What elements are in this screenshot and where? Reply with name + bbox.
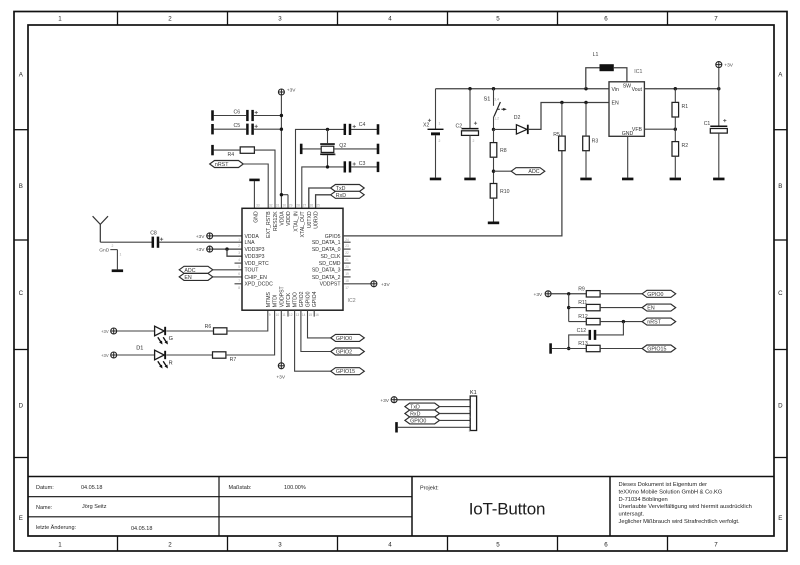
- svg-text:+3V: +3V: [196, 234, 205, 240]
- svg-text:E: E: [778, 515, 782, 522]
- resistor R11: [578, 300, 600, 311]
- svg-text:11: 11: [282, 313, 286, 317]
- svg-text:Name:: Name:: [36, 505, 53, 511]
- net flag GPIO0 (IC2): [331, 334, 365, 341]
- wire GPIO0 to K1 pin 4: [440, 419, 471, 421]
- wire R3 to ground: [585, 103, 587, 178]
- svg-text:27: 27: [303, 204, 307, 208]
- svg-text:C2: C2: [456, 124, 463, 130]
- net flag EN (pull-up): [642, 304, 676, 311]
- svg-text:Vout: Vout: [632, 87, 643, 93]
- svg-text:1: 1: [238, 238, 240, 242]
- svg-text:1: 1: [439, 122, 441, 126]
- resistor R8: [490, 143, 507, 158]
- wire R8 to ADC node: [492, 157, 511, 183]
- svg-text:5: 5: [496, 541, 500, 548]
- svg-text:XTAL_IN: XTAL_IN: [294, 211, 300, 232]
- svg-text:R6: R6: [205, 324, 212, 330]
- svg-text:GND: GND: [622, 131, 634, 137]
- svg-text:U0RXD: U0RXD: [314, 211, 320, 229]
- wire R10 to ground: [493, 198, 495, 221]
- resistor R5: [553, 132, 565, 151]
- svg-text:X2: X2: [423, 122, 429, 128]
- supply +3V (below IC2): [278, 363, 284, 369]
- svg-text:SD_DATA_1: SD_DATA_1: [312, 240, 341, 246]
- svg-text:EN: EN: [647, 306, 655, 312]
- resistor R13: [578, 341, 600, 352]
- svg-text:1: 1: [469, 401, 471, 405]
- svg-text:VDD3P3: VDD3P3: [245, 247, 265, 253]
- svg-text:14: 14: [302, 313, 306, 317]
- wire LED green to R6: [166, 330, 213, 332]
- svg-text:C: C: [778, 290, 783, 297]
- svg-text:CHIP_EN: CHIP_EN: [245, 275, 268, 281]
- svg-text:25: 25: [316, 204, 320, 208]
- svg-text:6: 6: [238, 272, 240, 276]
- svg-text:VFB: VFB: [632, 127, 643, 133]
- resistor R6: [205, 324, 227, 334]
- wire antenna to C8: [100, 242, 152, 248]
- svg-text:GPIO15: GPIO15: [647, 347, 666, 353]
- svg-text:EXT_RSTB: EXT_RSTB: [266, 211, 272, 238]
- wire C5 row: [214, 128, 283, 131]
- net flag RxD (IC2): [331, 191, 365, 198]
- svg-text:untersagt.: untersagt.: [619, 512, 645, 518]
- wire RxD to K1 pin 3: [440, 413, 471, 415]
- ground bar (Q2 left): [300, 144, 303, 154]
- svg-text:R13: R13: [578, 341, 588, 347]
- svg-text:4: 4: [388, 541, 392, 548]
- wire C12 to nRST node: [596, 322, 624, 335]
- svg-text:VDDD: VDDD: [286, 211, 292, 226]
- resistor R4: [228, 147, 255, 158]
- svg-text:VDD_RTC: VDD_RTC: [245, 261, 269, 267]
- net flag GPIO0 (pull-up): [642, 290, 676, 297]
- wire LED red to R7: [166, 354, 212, 356]
- wire C12 to ground node: [567, 335, 589, 350]
- svg-text:GPIO15: GPIO15: [336, 369, 355, 375]
- svg-text:Maßstab:: Maßstab:: [229, 485, 252, 491]
- wire R13 to GPIO15 flag: [600, 348, 642, 350]
- svg-text:C6: C6: [234, 109, 241, 115]
- wire C4 right: [351, 128, 377, 130]
- net flag ADC (divider): [511, 168, 545, 175]
- svg-text:D: D: [778, 403, 783, 410]
- svg-text:letzte Änderung:: letzte Änderung:: [36, 524, 77, 531]
- svg-text:2: 2: [112, 244, 114, 248]
- supply +3V (top, above IC2): [278, 89, 284, 95]
- ground bar (C6 left): [211, 110, 214, 120]
- svg-text:10: 10: [276, 313, 280, 317]
- svg-text:24: 24: [345, 238, 349, 242]
- svg-text:SD_DATA_3: SD_DATA_3: [312, 268, 341, 274]
- svg-text:ADC: ADC: [528, 169, 539, 175]
- svg-text:MTDO: MTDO: [293, 292, 299, 307]
- wire crystal case right: [334, 148, 377, 150]
- svg-text:GPIO5: GPIO5: [325, 234, 341, 240]
- ground bar (K1): [395, 422, 398, 432]
- net flag GPIO0 (K1): [405, 417, 440, 424]
- svg-text:RxD: RxD: [336, 193, 346, 199]
- svg-text:+3V: +3V: [381, 282, 390, 288]
- resistor R2: [672, 142, 688, 157]
- svg-text:12: 12: [289, 313, 293, 317]
- antenna GnD pin to ground: [99, 248, 123, 273]
- wire GPIO0 pin to flag: [308, 310, 331, 338]
- svg-text:3: 3: [278, 15, 282, 22]
- svg-text:B: B: [778, 183, 782, 190]
- wire GPIO5 to R5: [343, 151, 562, 236]
- supply +3V (Vout): [716, 62, 722, 68]
- net flag ADC (IC2 TOUT): [179, 266, 213, 273]
- net flag TxD (K1): [405, 403, 440, 410]
- ground bar (C3 right): [377, 162, 380, 172]
- wire ADC to TOUT: [213, 269, 242, 271]
- wire vertical pull-up bus: [567, 294, 570, 322]
- svg-text:VDDA: VDDA: [280, 211, 286, 226]
- wire C6 row: [214, 114, 283, 117]
- svg-text:MTMS: MTMS: [266, 291, 272, 307]
- svg-text:R5: R5: [553, 132, 560, 138]
- inductor L1: [593, 52, 614, 71]
- svg-text:2: 2: [168, 541, 172, 548]
- connector K1: [469, 390, 477, 433]
- svg-text:C5: C5: [234, 123, 241, 129]
- svg-text:Jeglicher Mißbrauch wird Straf: Jeglicher Mißbrauch wird Strafrechtlich …: [619, 519, 741, 525]
- svg-text:2: 2: [238, 244, 240, 248]
- net flag nRST (pull-up): [642, 318, 676, 325]
- svg-text:SD_CLK: SD_CLK: [320, 254, 341, 260]
- svg-text:R12: R12: [578, 314, 588, 320]
- wire R9 to GPIO0 flag: [600, 293, 642, 295]
- svg-text:R9: R9: [578, 286, 585, 292]
- svg-text:+3V: +3V: [380, 398, 389, 404]
- svg-text:4: 4: [238, 258, 240, 262]
- wire R11 row: [569, 307, 642, 309]
- svg-text:6: 6: [604, 541, 608, 548]
- svg-text:SD_DATA_0: SD_DATA_0: [312, 247, 341, 253]
- svg-text:SW: SW: [623, 83, 631, 89]
- wire R1 top: [674, 89, 676, 103]
- ground bar (C5 left): [211, 124, 214, 134]
- svg-text:D2: D2: [514, 115, 521, 121]
- svg-text:C8: C8: [150, 231, 157, 237]
- svg-text:100.00%: 100.00%: [284, 485, 306, 491]
- net flag EN (IC2 CHIP_EN): [179, 273, 213, 280]
- wire XTAL_IN to C4 row: [296, 128, 344, 209]
- svg-text:23: 23: [345, 244, 349, 248]
- svg-text:2: 2: [469, 408, 471, 412]
- svg-text:R8: R8: [500, 148, 507, 154]
- wire R2 to ground: [674, 156, 676, 177]
- svg-text:3: 3: [238, 251, 240, 255]
- svg-text:GPIO2: GPIO2: [299, 291, 305, 307]
- svg-text:C1: C1: [704, 121, 711, 127]
- ground bar (C2): [464, 178, 475, 181]
- wire +3V to R9 node: [551, 292, 586, 295]
- resistor R12: [578, 314, 600, 325]
- capacitor C1 (electrolytic): [704, 119, 728, 133]
- wire +3V to Vout and C1: [718, 68, 720, 127]
- wire +3V to LED D1 green: [117, 330, 155, 332]
- svg-text:5: 5: [469, 429, 471, 433]
- svg-text:04.05.18: 04.05.18: [131, 526, 152, 532]
- svg-text:7: 7: [714, 541, 718, 548]
- wire R7 to MTDI pin: [226, 310, 275, 355]
- svg-text:1,2: 1,2: [494, 117, 499, 121]
- svg-text:VDDPST: VDDPST: [320, 282, 342, 288]
- supply +3V (green LED): [111, 328, 117, 334]
- svg-text:R2: R2: [682, 143, 689, 149]
- capacitor C5: [234, 123, 258, 135]
- svg-text:19: 19: [345, 272, 349, 276]
- net flag GPIO2 (IC2): [331, 348, 365, 355]
- wire battery rail: [436, 87, 610, 90]
- svg-text:GPIO2: GPIO2: [336, 350, 352, 356]
- supply +3V (VDD3P3 pins): [207, 246, 213, 252]
- supply +3V (K1): [391, 397, 397, 403]
- wire crystal case left: [302, 148, 321, 150]
- LED D1 red half: [155, 350, 173, 368]
- svg-text:20: 20: [345, 265, 349, 269]
- wire ground to K1 pin 5: [398, 426, 470, 428]
- svg-text:GPIO4: GPIO4: [312, 291, 318, 307]
- wire ground to R13: [552, 348, 586, 350]
- svg-text:15: 15: [309, 313, 313, 317]
- wire C8 to LNA pin: [159, 241, 242, 243]
- svg-text:+3V: +3V: [101, 353, 109, 358]
- svg-text:13: 13: [296, 313, 300, 317]
- capacitor C6: [234, 109, 258, 121]
- wire +3V vertical to VDDA/VDDD pins: [280, 95, 288, 208]
- IC IC1 (regulator): [609, 69, 644, 137]
- resistor R7: [213, 352, 237, 363]
- wire EN to CHIP_EN: [213, 276, 242, 278]
- svg-text:GnD: GnD: [99, 248, 110, 254]
- svg-text:32: 32: [269, 204, 273, 208]
- svg-text:R: R: [169, 360, 173, 366]
- ground bar (R2): [670, 178, 681, 181]
- svg-text:Jörg Seitz: Jörg Seitz: [82, 504, 107, 510]
- svg-text:+3V: +3V: [724, 63, 733, 69]
- svg-text:C12: C12: [577, 328, 587, 334]
- wire TxD to K1 pin 2: [440, 406, 471, 408]
- wire +3V to K1 pin 1: [397, 399, 470, 401]
- svg-text:VDDA: VDDA: [245, 234, 260, 240]
- svg-text:MTDI: MTDI: [273, 295, 279, 308]
- svg-text:nRST: nRST: [215, 162, 229, 168]
- wire +3V to VDD3P3 pins: [213, 247, 242, 256]
- capacitor C12: [577, 328, 597, 340]
- svg-text:3: 3: [278, 541, 282, 548]
- svg-text:GPIO0: GPIO0: [410, 418, 426, 424]
- net flag GPIO15 (IC2): [331, 368, 365, 375]
- net flag nRST: [210, 161, 244, 168]
- svg-text:9: 9: [269, 313, 271, 317]
- wire XTAL_OUT to C3 row: [302, 165, 344, 208]
- supply +3V (red LED): [111, 352, 117, 358]
- crystal Q2: [320, 129, 346, 167]
- svg-text:VDD3P3: VDD3P3: [245, 254, 265, 260]
- ground bar (C4 right): [377, 124, 380, 134]
- svg-text:IC1: IC1: [634, 69, 642, 75]
- svg-text:G: G: [169, 336, 173, 342]
- battery X2: [423, 89, 444, 178]
- svg-text:+3V: +3V: [534, 292, 543, 298]
- svg-text:5: 5: [238, 265, 240, 269]
- wire C1 to ground: [718, 133, 720, 178]
- svg-text:nRST: nRST: [647, 320, 661, 326]
- supply +3V (right of IC2): [371, 281, 377, 287]
- svg-text:04.05.18: 04.05.18: [81, 485, 102, 491]
- svg-text:teXXmo Mobile Solution GmbH &: teXXmo Mobile Solution GmbH & Co.KG: [619, 489, 723, 495]
- wire L1 right to SW pin: [614, 68, 627, 82]
- ground bar (R4 left): [211, 145, 214, 155]
- svg-text:L1: L1: [593, 52, 599, 58]
- ground (above IC2 GND pin): [249, 179, 259, 209]
- ground bar (R10): [488, 222, 499, 225]
- net flag RxD (K1): [405, 410, 440, 417]
- wire R5 top to EN line: [561, 103, 563, 137]
- svg-text:D: D: [19, 403, 24, 410]
- wire C3 right: [351, 166, 377, 168]
- svg-text:7: 7: [714, 15, 718, 22]
- svg-text:K1: K1: [470, 390, 477, 396]
- wire U0RXD to RxD flag: [316, 195, 331, 209]
- svg-text:7: 7: [238, 279, 240, 283]
- svg-text:Vin: Vin: [612, 87, 620, 93]
- svg-text:+3V: +3V: [196, 247, 205, 253]
- svg-text:IC2: IC2: [348, 298, 356, 304]
- ground bar (Q2 right): [377, 144, 380, 154]
- svg-text:SD_CMD: SD_CMD: [319, 261, 341, 267]
- svg-text:D-71034 Böblingen: D-71034 Böblingen: [619, 497, 668, 503]
- svg-text:17: 17: [345, 286, 349, 290]
- wire +3V to VDDA: [213, 235, 242, 237]
- svg-text:4: 4: [388, 15, 392, 22]
- svg-text:3: 3: [469, 415, 471, 419]
- svg-text:XPD_DCDC: XPD_DCDC: [245, 282, 274, 288]
- svg-text:U0TXD: U0TXD: [307, 211, 313, 228]
- svg-text:+3V: +3V: [287, 88, 296, 94]
- svg-text:S1: S1: [484, 97, 491, 103]
- ground bar (R13 row): [549, 343, 552, 353]
- svg-text:R1: R1: [682, 104, 689, 110]
- wire S1 to D2 and R8: [492, 128, 517, 143]
- svg-text:Unerlaubte Vervielfältigung wi: Unerlaubte Vervielfältigung wird hiermit…: [619, 504, 752, 510]
- svg-text:SD_DATA_2: SD_DATA_2: [312, 275, 341, 281]
- svg-text:R11: R11: [578, 300, 587, 306]
- wire nRST to EXT_RSTB pin: [243, 164, 268, 208]
- svg-text:16: 16: [315, 313, 319, 317]
- svg-text:4: 4: [469, 422, 471, 426]
- svg-text:Q2: Q2: [339, 143, 346, 149]
- svg-text:29: 29: [289, 204, 293, 208]
- wire L1 left to Vin rail: [586, 68, 600, 89]
- svg-text:33: 33: [256, 204, 260, 208]
- svg-text:30: 30: [283, 204, 287, 208]
- svg-text:+3V: +3V: [276, 375, 285, 381]
- svg-text:LNA: LNA: [245, 240, 256, 246]
- svg-text:2: 2: [168, 15, 172, 22]
- ground bar (IC1): [622, 178, 633, 181]
- svg-text:1: 1: [58, 541, 62, 548]
- wire R4 to RES12K pin: [214, 150, 275, 208]
- wire IC1 GND to ground: [627, 136, 629, 177]
- svg-text:2: 2: [473, 139, 475, 143]
- capacitor C3: [344, 161, 366, 173]
- svg-text:+3V: +3V: [101, 329, 109, 334]
- svg-text:XTAL_OUT: XTAL_OUT: [300, 210, 306, 237]
- net flag TxD (IC2): [331, 185, 365, 192]
- svg-text:R10: R10: [500, 189, 510, 195]
- svg-text:C3: C3: [359, 161, 366, 167]
- resistor R3: [583, 136, 599, 151]
- wire VFB node: [644, 117, 677, 142]
- antenna: [93, 216, 108, 242]
- svg-text:RES12K: RES12K: [273, 211, 279, 231]
- svg-text:28: 28: [296, 204, 300, 208]
- diode D2: [514, 115, 529, 134]
- svg-text:GPIO0: GPIO0: [647, 292, 663, 298]
- svg-text:26: 26: [310, 204, 314, 208]
- wire MTDO to GPIO15 flag: [295, 310, 331, 371]
- svg-text:R4: R4: [228, 152, 235, 158]
- LED D1 green half: [155, 326, 173, 344]
- svg-text:2: 2: [439, 139, 441, 143]
- net flag GPIO15 (pull-down): [642, 345, 676, 352]
- svg-text:22: 22: [345, 251, 349, 255]
- svg-text:6: 6: [604, 15, 608, 22]
- svg-text:3,4: 3,4: [494, 97, 499, 101]
- svg-text:C4: C4: [359, 122, 366, 128]
- svg-text:GND: GND: [253, 211, 259, 223]
- supply +3V (VDDA pin): [207, 233, 213, 239]
- capacitor C4: [344, 122, 366, 135]
- svg-text:E: E: [19, 515, 23, 522]
- ground bar (R3): [580, 178, 591, 181]
- svg-text:TOUT: TOUT: [245, 268, 260, 274]
- ground bar (C1): [713, 178, 724, 181]
- wire D2 to EN line: [529, 101, 609, 130]
- wire U0TXD to TxD flag: [309, 188, 331, 208]
- svg-text:5: 5: [496, 15, 500, 22]
- svg-text:R7: R7: [230, 357, 237, 363]
- wire VDDPST right to +3V: [343, 283, 371, 285]
- svg-text:EN: EN: [184, 275, 192, 281]
- resistor R10: [490, 184, 509, 199]
- svg-text:R3: R3: [592, 138, 599, 144]
- wire R12 row to nRST: [569, 320, 642, 323]
- svg-text:1: 1: [58, 15, 62, 22]
- svg-text:8: 8: [238, 286, 240, 290]
- capacitor C2 (electrolytic): [456, 89, 479, 178]
- svg-text:31: 31: [276, 204, 280, 208]
- supply +3V (pull-up network): [545, 291, 551, 297]
- ground bar (X2): [430, 178, 441, 181]
- IC IC2 (ESP8266): [235, 204, 356, 317]
- wire R6 to MTMS pin: [227, 310, 268, 331]
- svg-text:Dieses Dokument ist Eigentum d: Dieses Dokument ist Eigentum der: [619, 482, 708, 488]
- capacitor C8: [150, 231, 163, 248]
- resistor R9: [578, 286, 600, 297]
- svg-text:EN: EN: [612, 101, 619, 107]
- switch S1: [484, 89, 507, 130]
- svg-text:B: B: [19, 183, 23, 190]
- svg-text:21: 21: [345, 258, 349, 262]
- svg-text:IoT-Button: IoT-Button: [469, 500, 545, 519]
- svg-text:Datum:: Datum:: [36, 485, 54, 491]
